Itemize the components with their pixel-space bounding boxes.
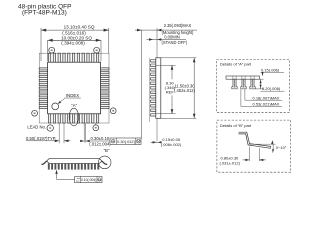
svg-text:0.20(.008): 0.20(.008) [262, 86, 281, 91]
svg-text:Details of “B” part: Details of “B” part [220, 123, 252, 128]
svg-text:0.15(.006): 0.15(.006) [261, 67, 280, 72]
left lead column [39, 68, 47, 70]
position tolerance frame [110, 138, 141, 145]
svg-text:“B”: “B” [104, 148, 110, 153]
detail A box [217, 60, 290, 113]
lead width dim 0.30±0.10 [83, 123, 85, 143]
svg-text:(.031±.012): (.031±.012) [220, 160, 241, 165]
svg-text:(.453±.012): (.453±.012) [174, 88, 196, 93]
svg-text:(.012±.004): (.012±.004) [89, 141, 111, 146]
svg-text:(.394±.008): (.394±.008) [61, 40, 85, 45]
detail B callout circle [98, 156, 111, 169]
svg-text:INDEX: INDEX [66, 93, 79, 98]
lead tip envelope [39, 53, 109, 123]
front view right gull-wing lead [101, 161, 107, 164]
right lead column [101, 68, 109, 70]
svg-text:0.30(.012): 0.30(.012) [117, 139, 135, 144]
svg-text:LEAD No.: LEAD No. [27, 124, 46, 129]
bottom lead row [48, 114, 50, 123]
svg-text:M: M [137, 140, 140, 144]
svg-text:2.35(.093)MAX: 2.35(.093)MAX [164, 23, 192, 28]
detail B lead profile [239, 132, 271, 146]
pin 13 callout circle [110, 108, 116, 114]
foot length dim 0.80±0.30 [248, 147, 250, 162]
lead pitch dim 0.50(.0197)TYP [58, 123, 60, 143]
pin 25 callout circle [94, 47, 100, 53]
svg-text:0.10(.004): 0.10(.004) [81, 178, 96, 182]
pin 12 callout circle [95, 123, 97, 125]
index mark [52, 103, 59, 110]
body length dim 11.50±0.30 [161, 57, 196, 59]
dim 0.20(.008) [260, 78, 264, 80]
QFP body [48, 62, 101, 114]
detail A seating bar [226, 76, 260, 79]
svg-text:(FPT-48P-M13): (FPT-48P-M13) [22, 10, 67, 17]
dim 0.18(.007)MAX [244, 89, 246, 100]
svg-text:0.50(.0197)TYP: 0.50(.0197)TYP [26, 136, 56, 141]
svg-text:0.18(.007)MAX: 0.18(.007)MAX [253, 95, 280, 100]
datum extension line to position-tolerance frame [141, 30, 143, 138]
detail A callout ellipse [69, 108, 78, 126]
svg-text:(.006±.002): (.006±.002) [161, 142, 182, 147]
coplanarity leader [56, 171, 58, 180]
side view lead feet [150, 60, 155, 63]
dim 0.53(.021)MAX [240, 89, 242, 106]
lead span dim 8.30 REF [156, 64, 176, 66]
svg-text:0~10°: 0~10° [276, 145, 287, 150]
front view lead comb [48, 163, 50, 169]
svg-text:(STAND OFF): (STAND OFF) [162, 40, 188, 45]
lead thickness dim 0.15±0.05 [156, 118, 158, 141]
svg-text:13.10±0.40 SQ: 13.10±0.40 SQ [64, 25, 95, 30]
front view left gull-wing lead [42, 161, 48, 164]
svg-text:0.53(.021)MAX: 0.53(.021)MAX [253, 101, 280, 106]
coplanarity tolerance frame [75, 176, 102, 182]
detail A lead sections [232, 76, 234, 79]
top lead row [48, 53, 50, 62]
side view body [156, 58, 161, 119]
detail B box [217, 120, 291, 172]
pin 36 callout circle [49, 47, 55, 53]
pin 48 callout circle [32, 110, 38, 116]
angle dim 0-10deg [250, 143, 276, 145]
pin 1 callout circle [47, 125, 53, 131]
mounting height dim 2.35(.093)MAX [135, 29, 197, 31]
side view lead tips line [149, 58, 151, 122]
svg-text:“A”: “A” [71, 103, 77, 108]
svg-text:Details of “A” part: Details of “A” part [220, 62, 252, 67]
front view body [47, 159, 101, 164]
